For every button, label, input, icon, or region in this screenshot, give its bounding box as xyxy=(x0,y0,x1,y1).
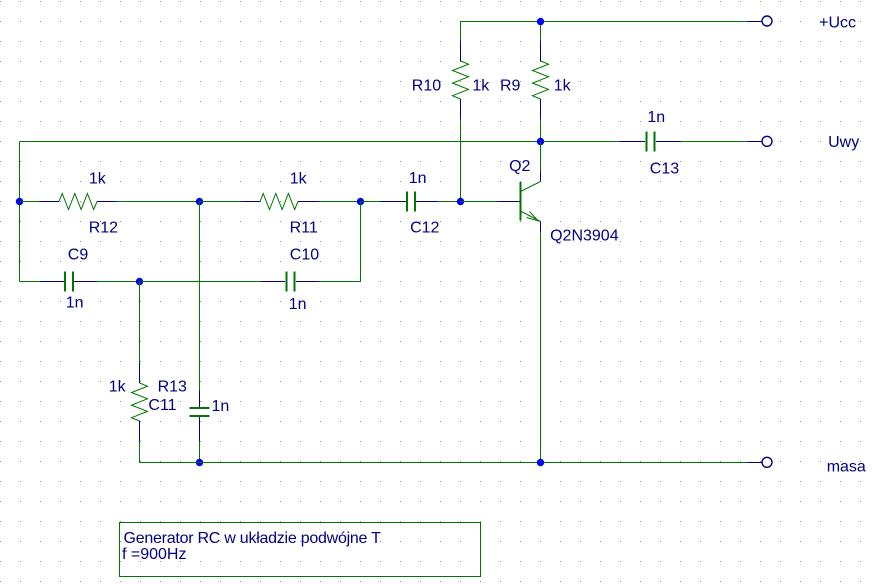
junction dot top rail R9 xyxy=(537,18,544,25)
wire C9 to junction xyxy=(97,281,140,283)
wire C13 to Uwy terminal xyxy=(681,141,747,143)
emitter pin xyxy=(540,222,542,233)
svg-text:R12: R12 xyxy=(89,220,118,237)
svg-text:Q2: Q2 xyxy=(509,158,530,175)
junction dot C9/C10 node xyxy=(136,278,143,285)
junction dot node B xyxy=(357,198,364,205)
wire feedback line y=141 xyxy=(20,141,541,143)
resistor R13 xyxy=(132,363,148,441)
wire mid node down to C11 xyxy=(199,202,201,392)
svg-text:Generator RC w układzie podwój: Generator RC w układzie podwójne T xyxy=(124,530,382,547)
svg-text:1n: 1n xyxy=(66,295,84,312)
wire C12 to base node xyxy=(438,201,461,203)
wire base node to transistor base xyxy=(461,201,498,203)
text box frame xyxy=(120,523,481,577)
svg-text:C10: C10 xyxy=(290,247,319,264)
svg-text:1k: 1k xyxy=(109,379,127,396)
svg-text:R10: R10 xyxy=(412,78,441,95)
svg-text:C11: C11 xyxy=(148,397,176,414)
wire left node to R12 xyxy=(20,201,40,203)
junction dot emitter ground xyxy=(537,459,544,466)
capacitor C13 xyxy=(619,132,681,152)
wire R13 to ground corner xyxy=(139,441,141,463)
wire C9 node to C10 xyxy=(140,281,262,283)
junction dot collector node xyxy=(537,138,544,145)
svg-text:1n: 1n xyxy=(212,398,230,415)
capacitor C12 xyxy=(380,192,438,212)
pin stub terminal +Ucc xyxy=(747,21,762,23)
terminal masa open circle xyxy=(762,457,772,467)
wire C11 to ground xyxy=(199,441,201,463)
svg-text:masa: masa xyxy=(827,459,866,476)
svg-text:1k: 1k xyxy=(554,78,572,95)
emitter arrow xyxy=(527,212,539,221)
junction dot C11 ground xyxy=(196,459,203,466)
capacitor C9 xyxy=(40,272,97,292)
wire node B down to C9 row xyxy=(360,202,362,282)
wire R9 bottom to collector node xyxy=(540,119,542,142)
junction dot at main left node xyxy=(16,198,23,205)
wire R10 vertical top xyxy=(460,22,462,42)
collector diagonal xyxy=(521,182,541,192)
wire C10 to corner under node B xyxy=(319,281,361,283)
svg-text:+Ucc: +Ucc xyxy=(819,14,856,31)
resistor R9 xyxy=(533,41,549,119)
svg-text:R13: R13 xyxy=(158,379,187,396)
wire ground rail masa xyxy=(140,462,748,464)
capacitor C10 xyxy=(261,272,319,292)
transistor Q2 xyxy=(497,142,541,233)
wire collector to node xyxy=(540,142,542,172)
capacitor C11 xyxy=(190,391,210,441)
pin stub terminal Uwy xyxy=(747,141,762,143)
wire emitter down to ground xyxy=(540,232,542,463)
svg-text:1k: 1k xyxy=(89,170,107,187)
emitter diagonal xyxy=(521,211,541,222)
svg-text:C12: C12 xyxy=(410,220,439,237)
wire R12 to mid node xyxy=(117,201,200,203)
terminal Uwy open circle xyxy=(762,136,772,146)
base pin xyxy=(497,201,520,203)
wire collector node to C13 xyxy=(541,141,620,143)
wire R9 vertical top xyxy=(540,22,542,42)
svg-text:1k: 1k xyxy=(472,78,490,95)
wire top rail +Ucc xyxy=(461,21,748,23)
wire mid node to R11 xyxy=(200,201,242,203)
wire C9 node down to R13 xyxy=(139,282,141,364)
svg-text:1n: 1n xyxy=(289,296,307,313)
wire R10 bottom to base node xyxy=(460,119,462,202)
svg-text:C13: C13 xyxy=(650,160,679,177)
pin stub terminal masa xyxy=(747,462,762,464)
svg-text:Q2N3904: Q2N3904 xyxy=(550,228,619,245)
wire R11 to node B xyxy=(319,201,361,203)
svg-text:1n: 1n xyxy=(647,109,665,126)
svg-text:R11: R11 xyxy=(290,220,318,237)
resistor R11 xyxy=(241,194,319,210)
wire C9 row left corner xyxy=(20,281,41,283)
junction dot base node xyxy=(457,198,464,205)
svg-text:C9: C9 xyxy=(68,247,89,264)
base bar xyxy=(520,182,522,221)
junction dot mid node xyxy=(196,198,203,205)
svg-text:1k: 1k xyxy=(290,170,308,187)
wire node B to C12 xyxy=(361,201,381,203)
svg-text:Uwy: Uwy xyxy=(828,134,859,151)
collector pin xyxy=(540,171,542,182)
svg-text:R9: R9 xyxy=(500,78,521,95)
terminal +Ucc open circle xyxy=(762,16,772,26)
svg-text:1n: 1n xyxy=(409,170,427,187)
svg-text:f =900Hz: f =900Hz xyxy=(122,546,186,563)
resistor R10 xyxy=(453,41,469,119)
wire left rail vertical xyxy=(19,142,21,282)
resistor R12 xyxy=(39,194,117,210)
